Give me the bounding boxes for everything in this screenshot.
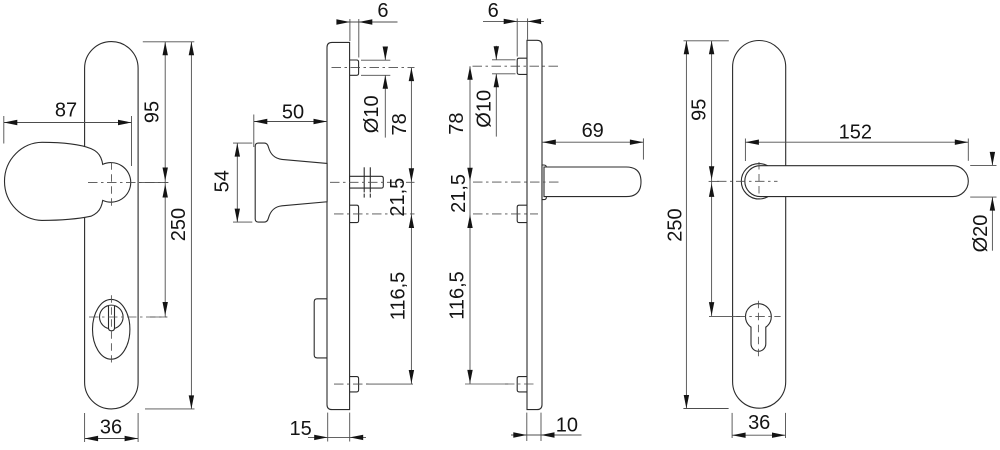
screw boss top (view 2) — [350, 60, 359, 75]
backplate view 4 (lever side, front) — [733, 41, 786, 409]
svg-text:6: 6 — [377, 0, 388, 22]
centerline middle boss (view 2) — [334, 213, 415, 215]
bottom extension line view4 — [683, 408, 728, 410]
lever rose circle (view 4) — [741, 164, 776, 199]
svg-text:152: 152 — [839, 122, 872, 144]
dimension 54 — [233, 142, 252, 144]
dimension 87 — [3, 116, 5, 144]
svg-text:36: 36 — [100, 416, 122, 438]
dimension 36 (view4) — [731, 413, 733, 438]
svg-text:95: 95 — [688, 99, 710, 121]
spindle square break lines — [363, 167, 365, 192]
dimension column 78 / 21,5 / 116,5 (view 2) — [410, 68, 412, 385]
dimension 152 — [744, 139, 746, 162]
cylinder centerlines (view 4) — [736, 316, 780, 318]
screw boss bottom (view 2) — [350, 377, 359, 392]
svg-text:250: 250 — [664, 208, 686, 241]
dimension 95 (view4) — [711, 41, 713, 317]
svg-text:78: 78 — [446, 112, 468, 134]
svg-text:36: 36 — [748, 412, 770, 434]
centerline top boss (view 3) — [473, 65, 560, 67]
knob centerlines — [88, 181, 168, 183]
spindle hub (view 2) — [350, 176, 384, 188]
dimension 250 (view1) — [190, 42, 192, 409]
dimension 10 — [526, 413, 528, 441]
lever grip flange (view 3) — [542, 165, 546, 200]
svg-text:Ø10: Ø10 — [473, 90, 495, 128]
dimension 250 (view4) — [685, 41, 687, 409]
dimension 36 (view1) — [84, 413, 86, 442]
centerline bottom boss (view 2) — [334, 383, 370, 385]
dimension knob-to-cylinder (unlabeled) — [163, 184, 168, 198]
svg-text:95: 95 — [141, 101, 163, 123]
dimension 6 (view 3) — [516, 18, 518, 56]
dimension 95 (view1) — [164, 42, 166, 317]
svg-text:87: 87 — [55, 100, 77, 122]
centerline spindle (view 2) — [330, 181, 415, 183]
dimension 6 (view 2) — [349, 19, 351, 41]
dimension 69 — [642, 138, 644, 159]
backplate view 1 (knob side, front) — [85, 42, 139, 409]
dimension rose-to-cylinder (unlabeled, view4) — [709, 183, 714, 197]
svg-text:21,5: 21,5 — [448, 174, 470, 213]
dimension 15 — [327, 413, 329, 442]
svg-text:116,5: 116,5 — [447, 271, 469, 320]
knob K1 side profile — [255, 143, 327, 222]
centerline bottom boss (view 3) — [465, 383, 508, 385]
dimension O20 — [970, 164, 996, 166]
screw boss bottom (view 3) — [517, 377, 527, 392]
knob K1 front view (egg shape) — [5, 142, 131, 220]
lever grip front view (view 4) — [745, 166, 969, 197]
lock case box (view 2) — [314, 299, 328, 358]
svg-text:6: 6 — [488, 0, 499, 22]
svg-text:50: 50 — [282, 102, 304, 124]
screw boss middle (view 2) — [350, 205, 359, 222]
cylinder escutcheon oval — [93, 299, 130, 359]
dimension 50 — [253, 115, 255, 148]
dimension O10 (view 3) — [492, 59, 516, 61]
lever grip side profile (view 3) — [544, 167, 641, 197]
backplate view 2 profile — [327, 42, 350, 409]
cylinder centerlines — [89, 316, 167, 318]
svg-text:116,5: 116,5 — [388, 272, 410, 321]
profile cylinder keyhole (view 4) — [746, 304, 772, 330]
svg-text:15: 15 — [289, 418, 311, 440]
svg-text:69: 69 — [582, 120, 604, 142]
svg-text:Ø10: Ø10 — [361, 95, 383, 133]
svg-text:54: 54 — [211, 170, 233, 192]
profile cylinder circle — [100, 305, 124, 329]
svg-text:250: 250 — [168, 208, 190, 241]
svg-text:10: 10 — [556, 414, 578, 436]
bottom extension line view1 — [145, 408, 195, 410]
dimension O10 (view 2) — [361, 59, 390, 61]
centerline middle boss (view 3) — [473, 213, 538, 215]
cylinder keyway slot — [109, 306, 115, 331]
centerline top boss (view 2) — [332, 67, 415, 69]
centerline spindle/lever (view 3) — [473, 181, 561, 183]
top extension line view4 — [684, 40, 729, 42]
top extension line view1 — [143, 41, 195, 43]
dimension column 78 / 21,5 / 116,5 (view 3) — [469, 66, 471, 384]
screw boss middle (view 3) — [517, 205, 527, 222]
lever centerlines (view 4) — [717, 180, 778, 182]
svg-text:21,5: 21,5 — [387, 178, 409, 217]
screw boss top (view 3) — [517, 58, 527, 74]
svg-text:Ø20: Ø20 — [970, 215, 992, 253]
svg-text:78: 78 — [389, 113, 411, 135]
backplate view 3 profile — [527, 40, 542, 409]
